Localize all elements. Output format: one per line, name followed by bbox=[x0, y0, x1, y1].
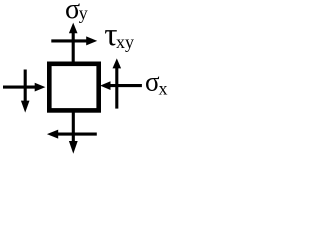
svg-text:y: y bbox=[79, 3, 88, 23]
tau-xy arrow (top, pointing right) bbox=[51, 36, 97, 45]
left face shear arrow (pointing down) bbox=[21, 70, 30, 113]
right face shear arrow (pointing up) bbox=[113, 58, 122, 108]
bottom face shear arrow (pointing left) bbox=[47, 130, 97, 139]
stress element square bbox=[49, 64, 98, 111]
sigma-y arrow (top, pointing up) bbox=[69, 23, 78, 64]
left face normal arrow (pointing right) bbox=[3, 83, 45, 92]
bottom face normal arrow (pointing down) bbox=[69, 110, 78, 154]
svg-text:xy: xy bbox=[116, 32, 134, 52]
svg-text:x: x bbox=[159, 78, 168, 98]
sigma-x arrow (right, pointing left) bbox=[100, 81, 142, 90]
